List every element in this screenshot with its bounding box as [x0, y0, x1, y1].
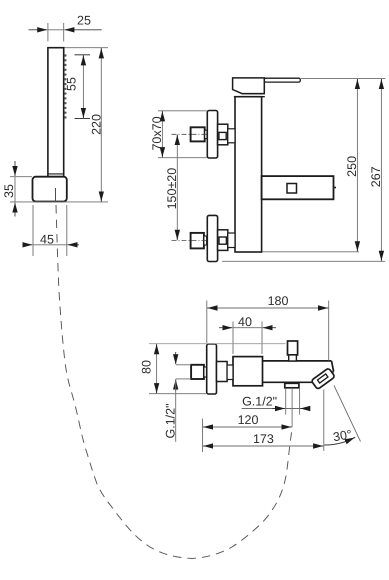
lever bar	[264, 78, 300, 82]
dim 180 right extension	[328, 301, 330, 361]
svg-text:40: 40	[238, 315, 252, 329]
G half inch left arrow up	[175, 380, 177, 392]
dim 220 top extension	[65, 47, 109, 49]
svg-text:45: 45	[40, 233, 54, 247]
dim 55 arrow up	[82, 55, 84, 64]
extension line flange bottom	[222, 260, 385, 262]
lever cap bottom line	[242, 93, 265, 95]
top connector screw	[219, 132, 226, 139]
fitting dim arrow left	[272, 408, 285, 410]
nut extension bottom	[176, 378, 191, 380]
svg-text:25: 25	[77, 13, 91, 27]
top connector	[218, 124, 228, 145]
fitting dim arrow right	[300, 408, 309, 410]
dim 80 line	[156, 344, 158, 394]
dim 173 line	[203, 445, 324, 447]
bottom connector	[218, 230, 228, 251]
spout cut edge	[326, 371, 334, 379]
dim 150+-20 arrow up	[176, 135, 178, 144]
dim 180 left extension	[206, 301, 208, 344]
body top flange line	[234, 96, 265, 98]
G half inch left arrow down	[175, 352, 177, 364]
dim 173 arrow right	[314, 445, 323, 447]
dim 45 extension right	[66, 205, 68, 256]
spout square detail	[287, 184, 297, 194]
dim 55 line	[82, 55, 84, 119]
hand shower hose dashed curve	[56, 205, 292, 559]
spout right edge	[332, 361, 334, 371]
dim 267 line	[380, 79, 382, 262]
dim 55 arrow down	[82, 109, 84, 118]
dim 40 left extension	[232, 322, 234, 355]
top eccentric nut	[191, 127, 205, 141]
dim 70x70 top extension	[158, 110, 207, 112]
dim 150+-20 line	[176, 134, 178, 240]
fitting extension right	[299, 388, 301, 415]
top eccentric collar	[205, 130, 207, 138]
dim 220 line	[100, 48, 102, 202]
angle arc	[324, 437, 355, 445]
nut extension top	[176, 364, 191, 366]
dim 180 arrow right	[319, 307, 328, 309]
dim 220 arrow down	[100, 192, 102, 201]
fitting dim line with underline	[242, 408, 307, 410]
dim 70x70 line	[161, 111, 163, 158]
svg-text:250: 250	[345, 156, 359, 177]
dim 80 top extension	[149, 343, 286, 345]
dim 150+-20 arrow down	[176, 231, 178, 240]
wall flange (bottom fig)	[207, 344, 217, 394]
dim 40 right extension	[261, 322, 263, 355]
top right extension line	[301, 78, 386, 80]
spray nozzle dots	[64, 54, 66, 118]
svg-text:G.1/2": G.1/2"	[242, 395, 277, 409]
angle arc arrow right	[348, 438, 355, 441]
dim 40 line	[233, 327, 262, 329]
dim 250 arrow up	[356, 79, 358, 88]
dim 267 arrow up	[380, 79, 382, 88]
handle seam line	[48, 173, 64, 175]
dim 35 arrow down	[14, 161, 16, 176]
wall collar (bottom fig)	[204, 367, 207, 377]
spout (side)	[262, 176, 334, 199]
dim 267 arrow down	[380, 253, 382, 261]
top eccentric centreline	[172, 133, 208, 135]
svg-text:80: 80	[140, 360, 154, 374]
hose fitting	[285, 383, 299, 388]
dim 45 extension left	[32, 205, 34, 256]
dim 25 line	[48, 29, 64, 31]
dim 120 173 left extension	[202, 419, 204, 453]
dim 220 arrow up	[100, 48, 102, 58]
svg-text:173: 173	[253, 432, 274, 446]
block centre mark	[55, 188, 57, 201]
dim 25 extension line right	[63, 23, 65, 42]
dim 70x70 arrow down	[161, 148, 163, 157]
mixer body	[235, 97, 262, 252]
wall nut (bottom fig)	[191, 365, 204, 379]
diverter knob neck	[289, 355, 297, 361]
angle slant line	[334, 386, 361, 442]
spout nozzle	[311, 368, 335, 390]
svg-text:120: 120	[238, 413, 259, 427]
bottom eccentric nut	[191, 233, 204, 249]
top connector neck	[228, 129, 235, 143]
dim 180 line	[207, 307, 329, 309]
dim 55 tick bottom	[75, 118, 91, 120]
bottom connector neck	[228, 233, 235, 248]
dim 120 line	[203, 426, 293, 428]
dim 45 line	[33, 244, 67, 246]
dim 35 line	[14, 177, 16, 202]
dim 45 arrow left	[24, 244, 33, 246]
spout top edge	[263, 360, 332, 362]
connector (bottom fig)	[217, 362, 228, 382]
dim 180 arrow left	[208, 307, 217, 309]
bottom eccentric collar	[204, 236, 207, 245]
svg-text:G.1/2": G.1/2"	[163, 403, 177, 438]
hand shower base block	[33, 177, 67, 202]
svg-text:220: 220	[89, 114, 103, 135]
dim 120 arrow left	[203, 426, 212, 428]
bottom eccentric centreline	[172, 239, 208, 241]
hand shower handle body	[48, 48, 64, 177]
lever cap	[233, 78, 265, 94]
dim 70x70 bottom extension	[158, 157, 207, 159]
bottom connector screw	[219, 237, 226, 244]
dim 25 arrow right	[64, 29, 101, 31]
dim 40 arrow left	[219, 327, 232, 329]
dim 35 arrow up	[14, 203, 16, 217]
svg-text:70x70: 70x70	[150, 116, 164, 150]
dim 250 arrow down	[356, 243, 358, 251]
mixer body (bottom view)	[233, 357, 263, 386]
dim 25 extension line left	[47, 23, 49, 42]
spout bottom edge	[263, 381, 313, 383]
dim 40 arrow right	[263, 327, 276, 329]
svg-text:180: 180	[268, 294, 289, 308]
dim 45 arrow right	[68, 244, 80, 246]
dim 80 arrow down	[156, 384, 158, 393]
dim 80 arrow up	[156, 344, 158, 353]
top wall flange	[207, 111, 217, 159]
extension line body bottom	[262, 251, 359, 253]
connector neck (bottom fig)	[227, 365, 233, 380]
fitting extension left	[285, 388, 287, 415]
dim 120 arrow right	[282, 426, 291, 428]
bottom wall flange	[207, 215, 217, 261]
dim 173 arrow left	[203, 445, 212, 447]
dim 55 tick top	[75, 54, 91, 56]
dim 80 bottom extension	[149, 393, 206, 395]
diverter knob	[288, 341, 298, 355]
bottom long extension line	[10, 201, 108, 203]
dim 25 arrow left	[29, 29, 48, 31]
svg-text:55: 55	[65, 77, 79, 91]
svg-text:35: 35	[2, 184, 16, 198]
dim 250 line	[356, 79, 358, 252]
G half inch left leader line	[175, 379, 177, 442]
svg-text:150±20: 150±20	[165, 168, 179, 210]
svg-text:267: 267	[369, 166, 383, 187]
spout outlet nub	[334, 187, 337, 189]
angle vertical reference	[323, 390, 325, 452]
dim 35 top extension	[10, 176, 32, 178]
dim 70x70 arrow up	[161, 111, 163, 120]
fitting centre line	[291, 388, 293, 427]
